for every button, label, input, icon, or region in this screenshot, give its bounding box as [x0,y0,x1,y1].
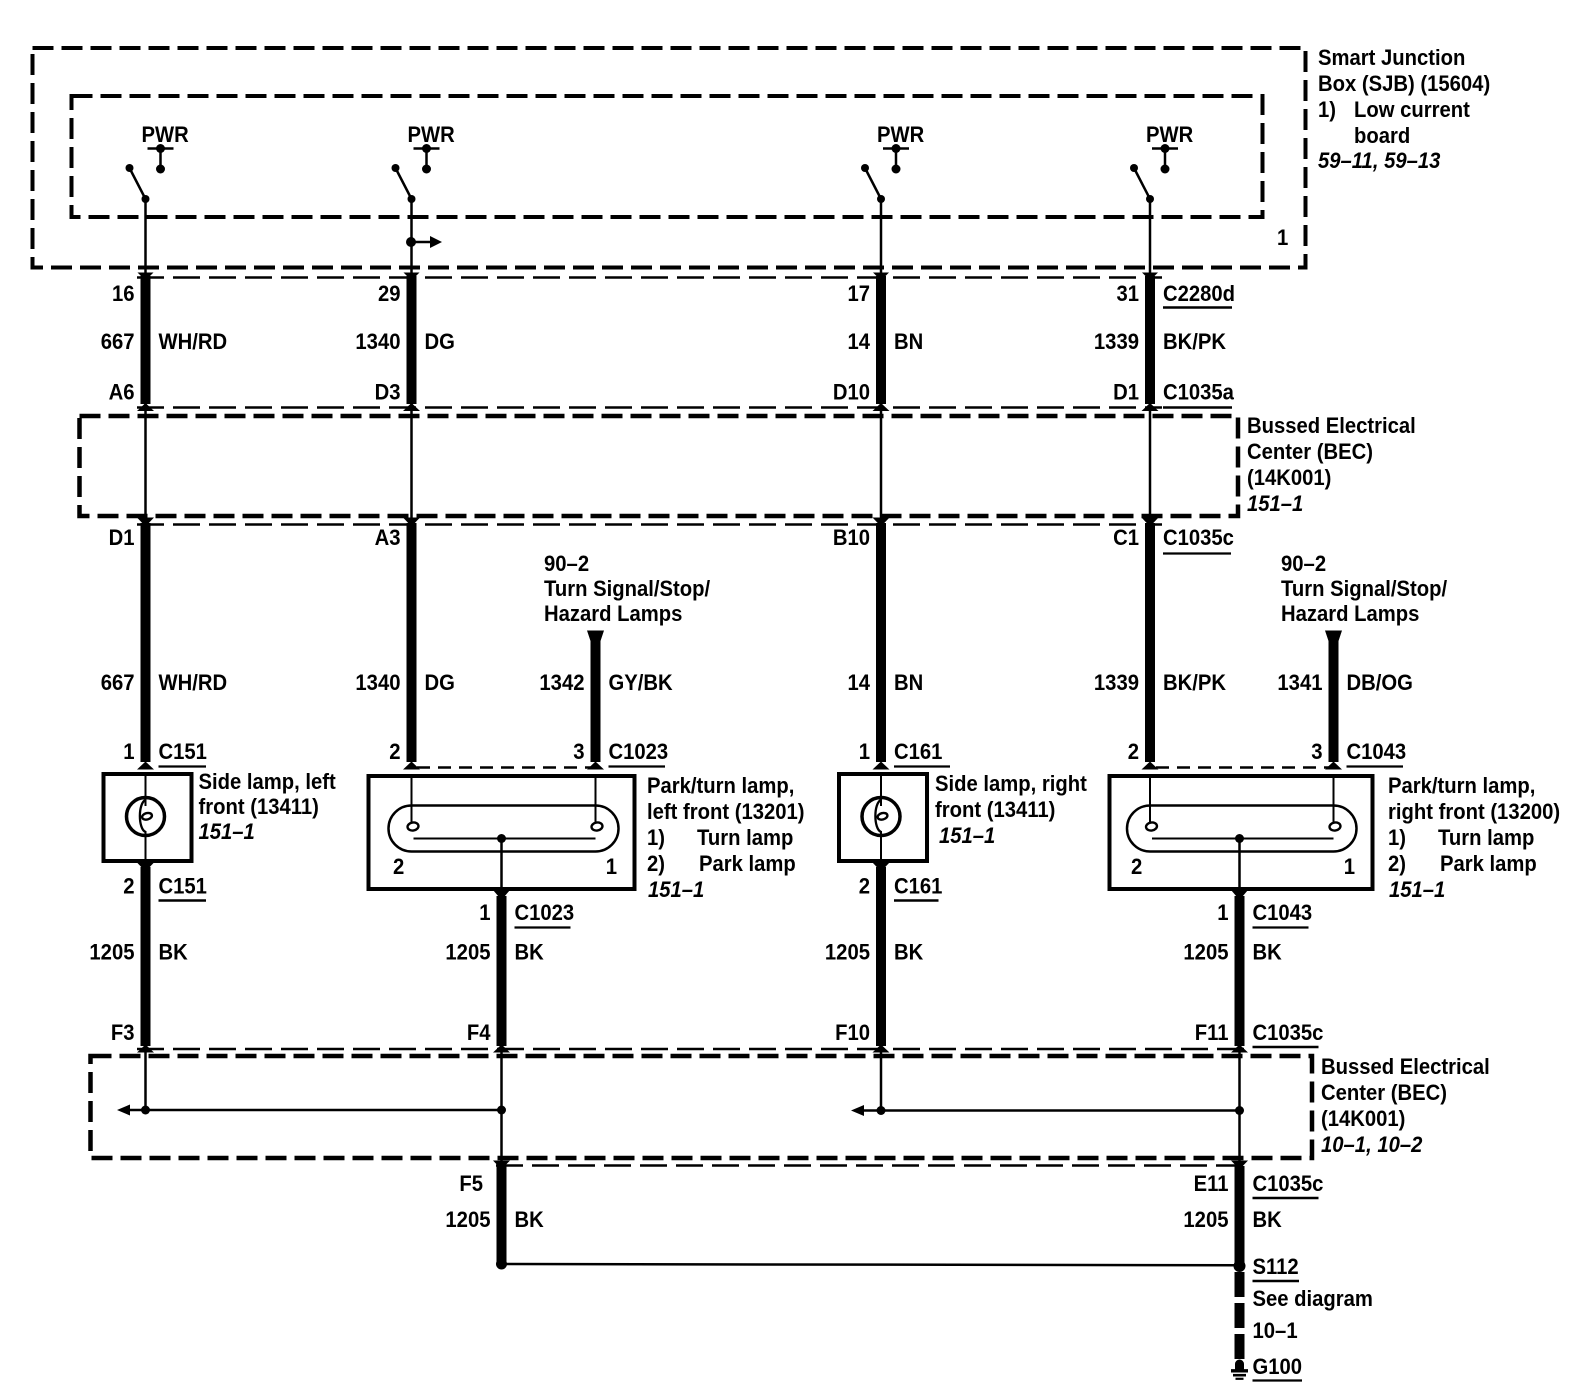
svg-text:151–1: 151–1 [1389,877,1445,902]
svg-text:90–2: 90–2 [1281,551,1326,576]
svg-text:3: 3 [1311,739,1322,764]
svg-text:front (13411): front (13411) [199,794,319,819]
svg-text:16: 16 [112,281,135,306]
svg-text:Side lamp, left: Side lamp, left [199,769,337,794]
svg-text:Park lamp: Park lamp [1440,851,1537,876]
svg-text:front (13411): front (13411) [935,797,1055,822]
svg-text:(14K001): (14K001) [1321,1106,1405,1131]
svg-text:Box (SJB) (15604): Box (SJB) (15604) [1318,71,1490,96]
svg-text:BK: BK [515,1207,545,1232]
svg-text:F5: F5 [459,1171,483,1196]
svg-text:Bussed Electrical: Bussed Electrical [1247,413,1416,438]
svg-text:C1035c: C1035c [1163,525,1234,550]
svg-text:Low current: Low current [1354,97,1470,122]
svg-text:board: board [1354,123,1410,148]
svg-text:Turn Signal/Stop/: Turn Signal/Stop/ [544,576,711,601]
svg-text:2: 2 [393,854,404,879]
svg-text:1205: 1205 [445,940,490,965]
svg-text:C1035c: C1035c [1253,1020,1324,1045]
svg-text:1: 1 [1344,854,1355,879]
svg-text:BN: BN [894,670,923,695]
svg-text:C151: C151 [159,874,207,899]
svg-text:C1043: C1043 [1347,739,1407,764]
svg-text:2: 2 [1131,854,1142,879]
svg-text:F11: F11 [1195,1020,1229,1045]
svg-text:1205: 1205 [445,1207,490,1232]
svg-text:WH/RD: WH/RD [159,329,228,354]
svg-text:PWR: PWR [877,122,924,147]
svg-text:G100: G100 [1253,1354,1303,1379]
svg-text:See diagram: See diagram [1253,1286,1373,1311]
svg-text:A3: A3 [375,525,401,550]
svg-text:left front (13201): left front (13201) [647,799,805,824]
svg-text:1): 1) [647,825,665,850]
svg-text:10–1: 10–1 [1253,1318,1298,1343]
svg-text:BK: BK [894,940,924,965]
svg-text:Hazard Lamps: Hazard Lamps [544,601,682,626]
svg-text:667: 667 [101,670,135,695]
svg-text:1341: 1341 [1277,670,1322,695]
svg-text:151–1: 151–1 [1247,491,1303,516]
svg-text:BK: BK [159,940,189,965]
svg-text:D3: D3 [375,380,401,405]
svg-text:1): 1) [1318,97,1336,122]
svg-text:667: 667 [101,329,135,354]
svg-text:151–1: 151–1 [648,877,704,902]
svg-text:Turn lamp: Turn lamp [697,825,793,850]
svg-text:59–11, 59–13: 59–11, 59–13 [1318,148,1441,173]
svg-text:BK/PK: BK/PK [1163,670,1227,695]
svg-text:3: 3 [573,739,584,764]
svg-text:1340: 1340 [355,670,400,695]
svg-text:C161: C161 [894,739,942,764]
svg-text:PWR: PWR [408,122,455,147]
svg-text:1339: 1339 [1094,670,1139,695]
svg-text:1339: 1339 [1094,329,1139,354]
svg-text:2: 2 [1128,739,1139,764]
svg-text:C2280d: C2280d [1163,281,1235,306]
svg-text:1: 1 [1217,900,1228,925]
svg-text:D1: D1 [109,525,135,550]
svg-text:F10: F10 [835,1020,870,1045]
svg-text:C1035c: C1035c [1253,1171,1324,1196]
svg-text:BK: BK [515,940,545,965]
svg-text:BK: BK [1253,940,1283,965]
svg-text:BN: BN [894,329,923,354]
svg-text:29: 29 [378,281,401,306]
svg-text:(14K001): (14K001) [1247,465,1331,490]
svg-text:PWR: PWR [142,122,189,147]
svg-text:Bussed Electrical: Bussed Electrical [1321,1054,1490,1079]
svg-text:14: 14 [848,329,871,354]
svg-text:D10: D10 [833,380,870,405]
svg-text:90–2: 90–2 [544,551,589,576]
svg-text:C151: C151 [159,739,207,764]
svg-text:DG: DG [425,670,455,695]
svg-text:D1: D1 [1113,380,1139,405]
svg-text:1205: 1205 [825,940,870,965]
svg-text:1205: 1205 [89,940,134,965]
svg-text:1340: 1340 [355,329,400,354]
svg-text:2: 2 [859,874,870,899]
svg-text:31: 31 [1117,281,1140,306]
svg-text:1): 1) [1388,825,1406,850]
svg-text:1: 1 [606,854,617,879]
svg-text:14: 14 [848,670,871,695]
svg-text:1: 1 [123,739,134,764]
svg-text:1342: 1342 [539,670,584,695]
svg-text:1: 1 [859,739,870,764]
svg-text:Side lamp, right: Side lamp, right [935,771,1087,796]
svg-text:Park lamp: Park lamp [699,851,796,876]
svg-text:PWR: PWR [1146,122,1193,147]
svg-text:BK: BK [1253,1207,1283,1232]
svg-text:Smart Junction: Smart Junction [1318,45,1465,70]
svg-text:17: 17 [848,281,871,306]
svg-text:F3: F3 [111,1020,135,1045]
svg-text:C1: C1 [1113,525,1139,550]
svg-text:151–1: 151–1 [199,819,255,844]
svg-text:Center (BEC): Center (BEC) [1321,1080,1447,1105]
svg-text:Hazard Lamps: Hazard Lamps [1281,601,1419,626]
svg-text:F4: F4 [467,1020,491,1045]
svg-text:E11: E11 [1194,1171,1229,1196]
svg-text:1: 1 [1277,225,1288,250]
svg-text:Center (BEC): Center (BEC) [1247,439,1373,464]
svg-text:2: 2 [389,739,400,764]
svg-text:2: 2 [123,874,134,899]
svg-text:1205: 1205 [1183,940,1228,965]
svg-text:Turn Signal/Stop/: Turn Signal/Stop/ [1281,576,1448,601]
svg-text:C1043: C1043 [1253,900,1313,925]
svg-text:DG: DG [425,329,455,354]
svg-text:Park/turn lamp,: Park/turn lamp, [1388,773,1535,798]
svg-text:Turn lamp: Turn lamp [1438,825,1534,850]
svg-text:DB/OG: DB/OG [1347,670,1413,695]
svg-text:S112: S112 [1253,1254,1299,1279]
svg-text:151–1: 151–1 [939,823,995,848]
svg-text:A6: A6 [109,380,135,405]
svg-text:2): 2) [647,851,665,876]
svg-text:C1023: C1023 [609,739,669,764]
svg-text:2): 2) [1388,851,1406,876]
svg-text:B10: B10 [833,525,870,550]
svg-text:10–1, 10–2: 10–1, 10–2 [1321,1132,1423,1157]
svg-text:C1023: C1023 [515,900,575,925]
svg-text:BK/PK: BK/PK [1163,329,1227,354]
svg-text:C1035a: C1035a [1163,380,1234,405]
svg-text:1205: 1205 [1183,1207,1228,1232]
svg-text:right front (13200): right front (13200) [1388,799,1560,824]
svg-text:Park/turn lamp,: Park/turn lamp, [647,773,794,798]
svg-text:WH/RD: WH/RD [159,670,228,695]
svg-text:GY/BK: GY/BK [609,670,674,695]
svg-text:1: 1 [479,900,490,925]
svg-text:C161: C161 [894,874,942,899]
